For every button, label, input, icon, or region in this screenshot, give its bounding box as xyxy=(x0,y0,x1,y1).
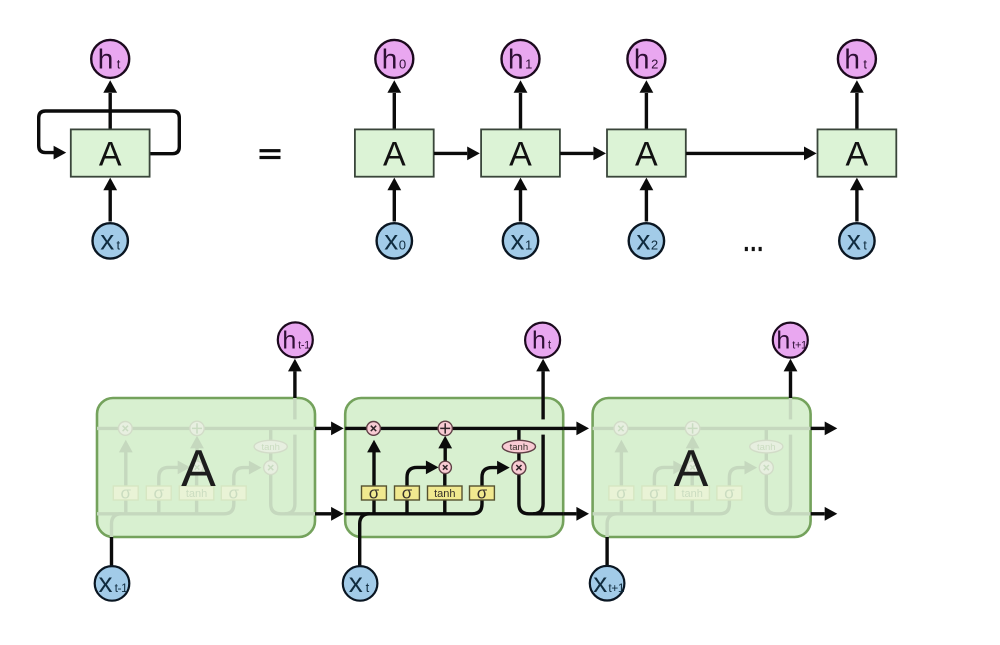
svg-text:x: x xyxy=(349,567,363,598)
svg-text:A: A xyxy=(181,440,216,498)
svg-text:t-1: t-1 xyxy=(298,339,310,351)
svg-text:t: t xyxy=(863,57,867,72)
svg-text:t+1: t+1 xyxy=(608,581,625,595)
svg-text:x: x xyxy=(593,567,607,598)
svg-text:0: 0 xyxy=(399,237,406,252)
svg-text:t+1: t+1 xyxy=(792,339,807,351)
svg-text:h: h xyxy=(844,44,860,75)
svg-text:x: x xyxy=(511,224,525,255)
svg-text:h: h xyxy=(382,44,398,75)
svg-text:h: h xyxy=(98,44,114,75)
svg-text:t: t xyxy=(116,237,120,252)
svg-text:h: h xyxy=(634,44,650,75)
svg-text:1: 1 xyxy=(525,57,532,72)
svg-text:2: 2 xyxy=(651,57,658,72)
svg-text:h: h xyxy=(776,326,790,354)
svg-text:x: x xyxy=(384,224,398,255)
svg-text:x: x xyxy=(847,224,861,255)
svg-text:x: x xyxy=(99,567,113,598)
svg-text:h: h xyxy=(532,326,546,354)
svg-text:h: h xyxy=(282,326,296,354)
svg-text:A: A xyxy=(674,440,709,498)
svg-text:x: x xyxy=(636,224,650,255)
svg-text:2: 2 xyxy=(651,237,658,252)
svg-text:1: 1 xyxy=(525,237,532,252)
svg-text:t: t xyxy=(863,237,867,252)
svg-text:t-1: t-1 xyxy=(115,581,129,595)
svg-text:x: x xyxy=(100,224,114,255)
svg-text:t: t xyxy=(117,57,121,72)
svg-text:h: h xyxy=(508,44,524,75)
svg-text:t: t xyxy=(366,580,370,595)
svg-text:0: 0 xyxy=(399,57,406,72)
